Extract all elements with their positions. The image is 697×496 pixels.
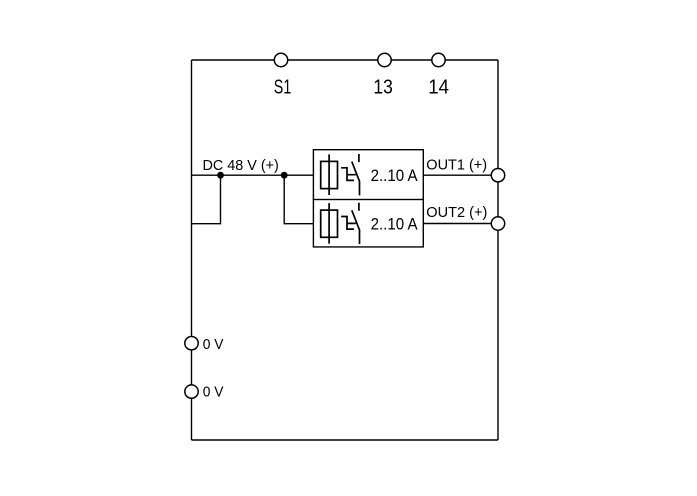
wire left bus (0 V) [191, 60, 193, 440]
terminal 13 [378, 53, 391, 66]
svg-text:S1: S1 [274, 75, 292, 98]
wire junction 1 loop to left bus [192, 175, 221, 224]
terminal 14 [432, 53, 445, 66]
junction dot 2 [281, 172, 288, 179]
wire junction 2 to breaker F2 input [284, 175, 313, 224]
wire OUT1 [423, 174, 498, 176]
svg-text:OUT1 (+): OUT1 (+) [426, 156, 487, 173]
svg-text:2..10 A: 2..10 A [371, 166, 419, 185]
terminal 0 V upper [185, 337, 198, 350]
wire bottom bus [192, 439, 499, 441]
wire OUT2 [423, 223, 498, 225]
junction dot 1 [217, 172, 224, 179]
wire DC 48 V supply rail [192, 174, 314, 176]
wire right bus (outputs) [497, 60, 499, 440]
terminal OUT2 [491, 217, 504, 230]
terminal OUT1 [491, 169, 504, 182]
svg-text:14: 14 [428, 75, 449, 98]
breaker F2 box [313, 200, 423, 247]
breaker contact F2 [341, 203, 359, 244]
svg-text:0 V: 0 V [203, 336, 224, 353]
svg-text:DC 48 V (+): DC 48 V (+) [203, 157, 279, 174]
terminal 0 V lower [185, 385, 198, 398]
svg-text:13: 13 [373, 75, 392, 98]
breaker contact F1 [341, 154, 359, 195]
breaker F1 box [313, 150, 423, 200]
fuse F1 [321, 154, 338, 195]
svg-text:2..10 A: 2..10 A [371, 215, 419, 234]
terminal S1 [274, 53, 287, 66]
fuse F2 [321, 203, 338, 244]
wire top bus [192, 59, 499, 61]
svg-text:OUT2 (+): OUT2 (+) [426, 204, 487, 221]
svg-text:0 V: 0 V [203, 384, 224, 401]
